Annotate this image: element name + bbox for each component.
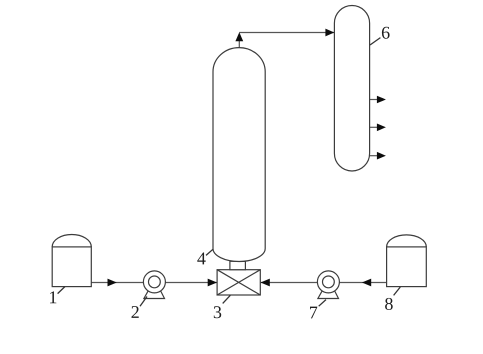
label 1 <box>50 291 56 303</box>
mixer M3 <box>217 270 260 295</box>
leader tick 2 <box>140 297 147 307</box>
label 8 <box>385 298 393 310</box>
tank T1 <box>52 235 91 287</box>
pump P7 <box>317 271 339 299</box>
label 2 <box>132 306 139 318</box>
wire overhead to separator6 <box>239 32 334 34</box>
arrow up from column4 <box>235 32 243 41</box>
column C4 <box>213 48 265 262</box>
column C4 neck <box>230 261 246 269</box>
pump P2 <box>143 271 165 299</box>
arrow into pump7 <box>362 279 371 287</box>
wire tank8 to mixer3 <box>261 282 387 284</box>
arrow into mixer3 left <box>208 279 217 287</box>
arrow separator6 outlet 2 <box>377 124 386 132</box>
label 6 <box>382 27 390 39</box>
wire separator6 outlet 3 <box>370 155 378 157</box>
wire column4 top riser <box>238 41 240 49</box>
leader tick 6 <box>370 38 380 45</box>
arrow separator6 outlet 3 <box>377 152 386 160</box>
leader tick 7 <box>319 300 326 307</box>
arrow into separator6 <box>325 29 334 37</box>
leader tick 4 <box>206 249 213 255</box>
leader tick 8 <box>394 287 401 295</box>
wire separator6 outlet 1 <box>370 99 378 101</box>
arrow separator6 outlet 1 <box>377 96 386 104</box>
tank T8 <box>387 235 427 287</box>
arrow into pump2 <box>108 279 117 287</box>
leader tick 3 <box>223 295 231 303</box>
wire separator6 outlet 2 <box>370 126 378 128</box>
label 4 <box>197 253 205 265</box>
arrow into mixer3 right <box>261 279 270 287</box>
wire tank1 to mixer3 <box>91 282 216 284</box>
separator S6 <box>334 6 369 172</box>
label 3 <box>214 306 221 318</box>
label 7 <box>310 307 317 319</box>
leader tick 1 <box>58 287 65 294</box>
